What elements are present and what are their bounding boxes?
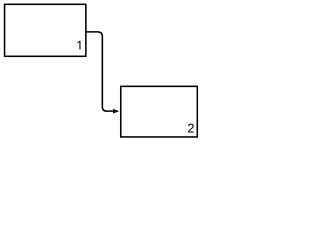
- arrowhead: [113, 109, 119, 114]
- box 2: [121, 86, 198, 137]
- connector wire from box 1 to box 2: [86, 32, 113, 111]
- label 1: [77, 41, 80, 50]
- box 1: [5, 4, 86, 56]
- label 2: [188, 124, 194, 133]
